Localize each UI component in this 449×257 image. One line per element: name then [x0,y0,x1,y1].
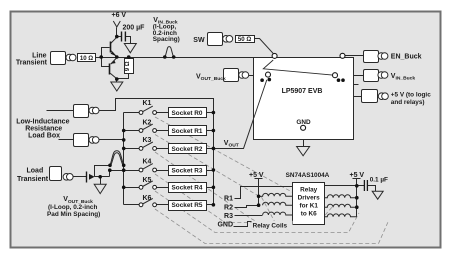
svg-text:+5 V: +5 V [249,172,264,179]
svg-text:+5 V: +5 V [350,172,365,179]
svg-text:9 Ω: 9 Ω [125,61,131,71]
svg-text:R2: R2 [224,204,233,211]
svg-text:to K6: to K6 [301,211,317,218]
svg-text:Load: Load [27,168,44,175]
svg-text:for K1: for K1 [299,203,318,210]
svg-text:K3: K3 [143,137,152,144]
svg-text:R1: R1 [224,196,233,203]
svg-text:Socket R1: Socket R1 [172,128,203,135]
svg-text:+6 V: +6 V [112,12,127,19]
svg-text:Transient: Transient [17,176,49,183]
svg-text:50 Ω: 50 Ω [238,36,251,43]
svg-text:(I-Loop, 0.2-inch: (I-Loop, 0.2-inch [48,204,97,211]
svg-text:LP5907 EVB: LP5907 EVB [282,88,323,95]
svg-text:Transient: Transient [16,59,48,66]
svg-text:Pad Min Spacing): Pad Min Spacing) [47,211,100,218]
svg-text:10 Ω: 10 Ω [80,55,93,62]
svg-text:K1: K1 [143,100,152,107]
svg-text:Drivers: Drivers [298,195,320,202]
svg-text:R3: R3 [224,213,233,220]
svg-text:+5 V (to logic: +5 V (to logic [391,92,431,99]
svg-text:SW: SW [193,37,205,44]
svg-text:0.1 µF: 0.1 µF [370,177,388,184]
svg-text:GND: GND [296,119,311,126]
svg-text:Relay: Relay [300,187,317,194]
svg-text:Resistance: Resistance [25,125,62,132]
svg-text:K6: K6 [143,195,152,202]
svg-text:200 µF: 200 µF [123,25,146,32]
svg-text:K2: K2 [143,119,152,126]
svg-text:K4: K4 [143,159,152,166]
svg-text:EN_Buck: EN_Buck [391,54,422,61]
svg-text:Socket R4: Socket R4 [172,185,203,192]
svg-text:SN74AS1004A: SN74AS1004A [286,172,330,179]
svg-text:Socket R0: Socket R0 [172,110,203,117]
svg-text:Relay Coils: Relay Coils [253,222,288,229]
svg-text:Socket R5: Socket R5 [172,202,203,209]
svg-text:and relays): and relays) [391,99,425,106]
svg-text:Socket R2: Socket R2 [172,146,203,153]
svg-text:K5: K5 [143,177,152,184]
svg-text:Spacing): Spacing) [153,36,180,43]
svg-text:GND: GND [217,222,233,229]
svg-text:Load Box: Load Box [28,132,60,139]
svg-text:Socket R3: Socket R3 [172,167,203,174]
svg-text:Line: Line [32,52,46,59]
